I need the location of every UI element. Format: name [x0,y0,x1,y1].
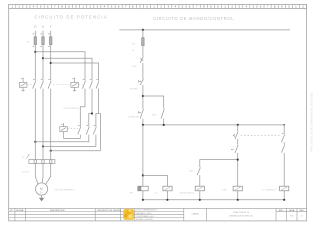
contactor KM3 operator box [60,123,68,138]
node bus2 end [283,124,285,126]
svg-text:COMPROBADO: A.G.: COMPROBADO: A.G. [136,215,155,218]
svg-text:DESCRIPCION: DESCRIPCION [50,210,65,212]
ruler strip [9,4,307,8]
svg-text:MOTOR TRIFASICO: MOTOR TRIFASICO [55,188,75,191]
svg-text:KM3 ESTRELLA: KM3 ESTRELLA [180,192,195,195]
contactor KM1 pole 2 [40,79,43,88]
wire KM3 coil feed [200,160,238,168]
svg-text:LAMINA: LAMINA [192,213,200,216]
wire phase T lower [50,89,52,160]
svg-text:REV.: REV. [300,210,305,212]
mechanical link dashes KM1 [27,84,33,86]
node tap T [50,62,52,64]
svg-text:ARRANQUE ESTRELLA: ARRANQUE ESTRELLA [230,214,254,217]
wire outer return to phase T [51,150,101,152]
mechanical link dashes KM3 [68,128,78,130]
coil KM1 [138,186,148,200]
svg-text:FECHA: 10-05-2020: FECHA: 10-05-2020 [136,218,153,221]
contactor KM3 pole 2 [86,126,89,135]
node tap R [34,51,36,53]
wire tap S to KM2 pole2 [43,58,92,80]
svg-text:DIBUJADO: J.M.R.: DIBUJADO: J.M.R. [136,212,152,215]
wire tap R to KM2 pole1 [35,52,85,81]
wire phase S lower [42,89,44,160]
svg-text:F2: F2 [132,50,134,52]
fuse F1 pole 1 [33,34,37,47]
wire KT branch 4 [237,125,239,131]
wire phase R lower [34,89,36,160]
node tap S [42,57,44,59]
wire jog to outer return [99,114,101,151]
wire control feed bus L1 [119,29,290,31]
svg-text:CIRCUITO DE MANDO/CONTROL: CIRCUITO DE MANDO/CONTROL [153,16,234,21]
wire between KT contact and KM2 NC [237,139,239,145]
contactor KM2 pole 3 [96,79,99,88]
logo [123,209,134,220]
svg-text:KT TRIANGULO: KT TRIANGULO [263,189,277,192]
contact KM2 NC [231,145,238,153]
wire seal-in branch [143,96,164,109]
thermal NC contact F2 [140,57,143,63]
svg-text:M: M [40,187,43,191]
svg-text:TITULO: ARRANQUE E-T: TITULO: ARRANQUE E-T [136,209,158,212]
motor M 3~ [36,183,48,195]
coil KM2 [233,186,242,200]
contact KT timed NO [282,133,285,142]
mechanical link dashes KM2 [79,84,83,86]
thermal relay F2 body [29,160,55,164]
svg-text:T: T [50,25,52,29]
wire KM1 aux to bus2 [163,119,165,125]
node bottom e [283,199,285,201]
svg-text:S0 PARO: S0 PARO [130,88,139,91]
svg-text:3~: 3~ [40,191,43,195]
wire KM2 pole2 jog [89,89,92,127]
contactor KM3 pole 1 [78,126,81,135]
wire between contacts branch5 [283,142,285,145]
node bottom d [237,199,239,201]
contactor KM1 pole 3 [48,79,51,88]
contactor KM3 pole 3 [93,126,96,135]
wire branch 5 [283,125,285,134]
wire phase R vertical [34,31,36,81]
wire KM3 pole1 to box [64,135,81,139]
svg-text:CIRCUITO DE POTENCIA: CIRCUITO DE POTENCIA [35,14,108,19]
wire tap T to KM2 pole3 [51,63,99,81]
svg-text:Nº: Nº [10,209,13,212]
contactor KM1 operator box [19,78,27,92]
wire phase S vertical [42,31,44,81]
wire KM2 pole3 jog [96,89,99,127]
title block [9,208,307,221]
mechanical link dashes KT [241,135,280,137]
node control tap [142,29,144,31]
contactor KM1 pole 1 [33,79,36,88]
node bus2 b [163,124,165,126]
wire relay to motor 2 [41,164,44,184]
node return T [50,150,52,152]
wire relay to motor 1 [35,164,38,185]
contact KM2 interlock [197,168,200,176]
contact KT timed NC [233,132,238,140]
wire to coil KM2 delta [283,153,285,187]
svg-text:KM1: KM1 [129,192,133,194]
wire S0 to node [142,85,144,109]
contactor KM2 pole 2 [89,79,92,88]
wire to coil KM3 [199,175,201,186]
node bus2 a [142,124,144,126]
wire KT branch [143,175,168,186]
node bus2 c [237,124,239,126]
node return S [42,145,44,147]
fuse F1 pole 3 [48,34,52,47]
coil KM3 [195,186,204,200]
wire KM3 pole3 return to phase S [43,135,96,147]
wire bus 2 [143,124,284,126]
pushbutton S1 start [139,109,144,119]
wire control drop [142,30,144,57]
contact KM3 NC interlock [282,145,285,153]
wire KM1 coil branch [142,125,144,186]
mechanical link dashes KM1 to KM2 [53,84,71,86]
coil KT [163,186,172,200]
node bottom c [199,199,201,201]
svg-text:95-96-97: 95-96-97 [22,172,30,174]
thermal relay F2 trip symbol [26,155,29,159]
ground [39,195,44,201]
wire KM2 pole1 jog [80,89,85,127]
svg-text:KM3 ESTRELLA: KM3 ESTRELLA [64,107,80,110]
pushbutton S0 stop [139,79,144,85]
node KT branch [142,174,144,176]
wire bottom bus N [143,199,284,201]
fuse F10 [142,38,144,46]
svg-text:95-96: 95-96 [132,66,137,68]
svg-text:FECHA: FECHA [16,209,24,212]
wire relay to motor 3 [45,164,50,185]
contactor KM2 operator box [71,78,79,92]
svg-text:S1 MARCHA: S1 MARCHA [128,116,140,119]
fuse F1 pole 2 [40,34,44,47]
svg-text:KM2: KM2 [189,170,193,172]
svg-text:ESC.: ESC. [279,210,284,212]
node return R [34,141,36,143]
wire S1 to bus2 [142,119,144,125]
wire to node KM3 feed [237,153,239,186]
svg-text:HOJA: HOJA [289,209,295,212]
node seal-in [142,95,144,97]
svg-text:KM2: KM2 [223,190,227,192]
svg-text:PRACTICAS DE AUTOMATISMOS CADE: PRACTICAS DE AUTOMATISMOS CADE-SIMU [310,92,313,152]
svg-text:PROYECTO: EL SILBON: PROYECTO: EL SILBON [97,210,121,212]
svg-text:KM1: KM1 [152,114,156,116]
contact KM1 aux [161,109,164,119]
coil KM2 delta [280,186,289,200]
node bottom a [142,199,144,201]
node bottom b [166,199,168,201]
wire phase T vertical [50,31,52,81]
wire KM3 pole2 return to phase R [35,135,89,142]
svg-text:PRACTICA Nº 14: PRACTICA Nº 14 [233,211,250,214]
contactor KM2 pole 1 [82,79,85,88]
wire between F2 and S0 [142,63,144,79]
node KM3 feed [237,159,239,161]
node jog junction [91,112,93,114]
